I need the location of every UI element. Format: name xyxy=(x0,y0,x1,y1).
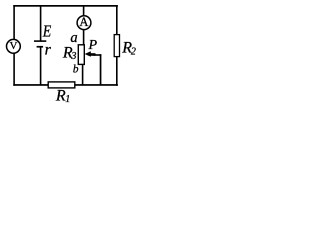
svg-text:1: 1 xyxy=(65,94,70,105)
rheostat R3 xyxy=(78,45,84,65)
ammeter A xyxy=(77,15,91,29)
svg-text:A: A xyxy=(79,15,88,29)
wire bottom xyxy=(13,84,118,86)
svg-text:3: 3 xyxy=(70,51,76,62)
wire battery lower (plate to bottom wire) xyxy=(40,47,42,85)
node b xyxy=(73,64,79,76)
voltmeter V xyxy=(6,39,20,53)
wire ammeter lower (A to node a / R3 top) xyxy=(83,30,85,45)
label R1 xyxy=(55,87,70,105)
wire battery upper (top wire to plate) xyxy=(40,5,42,41)
battery E plates xyxy=(34,40,46,47)
resistor R2 xyxy=(114,35,119,57)
svg-text:2: 2 xyxy=(131,47,136,58)
wire right upper (top wire to R2) xyxy=(116,5,118,35)
svg-text:P: P xyxy=(88,38,98,53)
label r xyxy=(45,42,52,59)
label R2 xyxy=(121,40,136,58)
wire top xyxy=(13,5,118,7)
wire right lower (R2 to bottom wire) xyxy=(116,57,118,86)
svg-text:V: V xyxy=(10,40,18,52)
svg-text:b: b xyxy=(73,64,79,76)
node a xyxy=(70,30,77,46)
label P xyxy=(88,38,98,53)
svg-text:r: r xyxy=(45,42,52,59)
wire slider down (P arm to bottom wire) xyxy=(100,54,102,85)
wire R3 bottom (b to bottom wire) xyxy=(82,64,84,85)
label E xyxy=(42,22,52,41)
wire left upper (top wire to voltmeter) xyxy=(13,5,15,40)
wire left lower (voltmeter to bottom wire) xyxy=(13,53,15,86)
wire ammeter upper (top wire to A) xyxy=(83,5,85,16)
resistor R1 xyxy=(48,82,75,88)
label R3 xyxy=(62,44,77,62)
svg-text:R: R xyxy=(55,87,66,104)
slider P arrow and arm xyxy=(85,51,102,57)
svg-text:E: E xyxy=(42,22,52,41)
